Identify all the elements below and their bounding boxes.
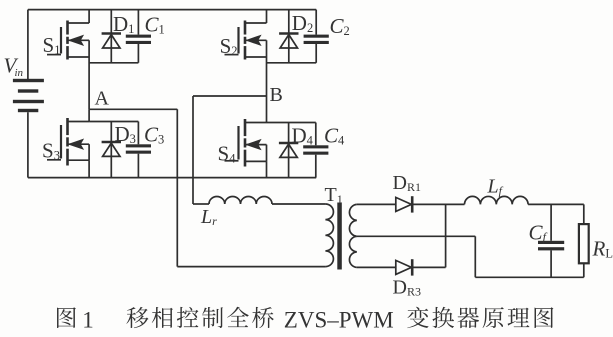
transformer T1 primary winding <box>325 204 333 267</box>
wire S3 source to bottom rail <box>88 160 90 177</box>
wire center tap down to output return <box>474 236 476 277</box>
wire DR1 cathode to filter <box>412 203 464 205</box>
svg-text:B: B <box>270 84 283 106</box>
wire secondary center tap <box>357 235 476 237</box>
wire node A to primary bottom (vertical) <box>176 109 178 266</box>
svg-text:1: 1 <box>82 308 94 333</box>
wire node B to S4 drain <box>266 96 268 123</box>
wire S4 source to bottom rail <box>266 161 268 177</box>
battery Vin <box>13 79 44 112</box>
wire node B vertical to Lr lead <box>193 203 209 205</box>
svg-text:ZVS–PWM: ZVS–PWM <box>284 308 394 333</box>
wire DR3 cathode to join <box>412 266 445 268</box>
wire S1 drain to top rail <box>88 10 90 23</box>
wire S4 cell top tie <box>267 122 316 124</box>
inductor Lr <box>209 197 272 205</box>
wire rectifier cathode join (vertical) <box>445 204 447 267</box>
transistor S1 <box>47 21 89 60</box>
wire top rail (Vin+ bus) <box>28 9 316 11</box>
wire secondary bottom lead to DR3 <box>357 266 396 268</box>
wire node A to S3 drain <box>88 109 90 121</box>
node B wire <box>193 95 267 97</box>
wire S2 source to node B leg <box>266 57 268 96</box>
transformer T1 secondary winding lower <box>349 236 356 267</box>
diode D4 <box>279 123 298 178</box>
diode D3 <box>102 122 121 178</box>
wire output top right corner <box>583 204 585 224</box>
resistor RL <box>579 224 589 263</box>
capacitor C2 <box>304 10 329 63</box>
wire Lf to load <box>528 203 584 205</box>
diode D2 <box>279 10 298 63</box>
wire S1 cell bottom tie <box>89 62 138 64</box>
inductor Lf <box>465 196 529 204</box>
diode DR3 <box>396 259 412 275</box>
capacitor Cf <box>538 204 564 277</box>
svg-text:in: in <box>15 67 24 79</box>
wire output bottom rail <box>475 276 584 278</box>
caption 图1 移相控制全桥 ZVS-PWM 变换器原理图 <box>57 307 553 333</box>
transistor S4 <box>225 119 267 167</box>
diode D1 <box>102 10 121 63</box>
diode DR1 <box>396 196 412 212</box>
transistor S3 <box>47 118 89 166</box>
transistor S2 <box>225 21 267 60</box>
transformer T1 core <box>337 203 342 270</box>
wire Lr to transformer primary <box>272 203 325 205</box>
wire S2 cell bottom tie <box>267 62 317 64</box>
svg-text:A: A <box>95 88 110 110</box>
wire S3 cell top tie <box>89 121 138 123</box>
capacitor C1 <box>126 10 151 63</box>
capacitor C3 <box>126 122 151 178</box>
wire S2 drain to top rail <box>266 10 268 23</box>
wire Vin positive lead <box>27 10 29 80</box>
capacitor C4 <box>303 123 328 178</box>
wire RL to output return <box>583 263 585 277</box>
wire primary bottom lead <box>177 266 325 268</box>
wire S1 source to node A leg <box>88 57 90 109</box>
wire node B to resonant inductor (vertical) <box>192 96 194 204</box>
wire secondary top lead to DR1 <box>357 203 396 205</box>
transformer T1 secondary winding upper <box>349 204 356 236</box>
wire Vin negative lead <box>27 112 29 177</box>
wire bottom rail (Vin- bus) <box>28 177 316 179</box>
node A wire <box>89 108 177 110</box>
